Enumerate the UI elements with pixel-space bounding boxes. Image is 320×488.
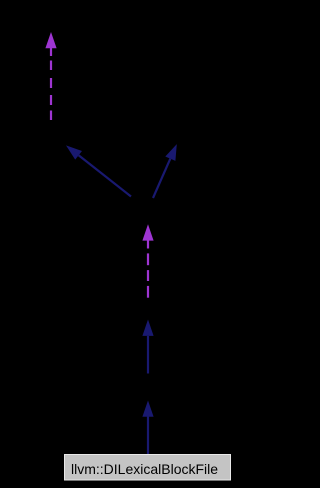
- wire A dash 4: [50, 95, 52, 105]
- node llvm::DILexicalBlockFile (main node box): [65, 455, 231, 481]
- wire D dash 3: [147, 270, 149, 281]
- arrowhead F: [142, 401, 153, 417]
- edge D: dashed usage arrow (middle), pointing up: [147, 240, 149, 298]
- svg-text:llvm::DILexicalBlockFile: llvm::DILexicalBlockFile: [71, 461, 218, 477]
- wire A dash 1: [50, 48, 52, 56]
- edge A: dashed usage arrow (top-left), pointing up: [50, 48, 52, 120]
- edge B: solid inheritance arrow to upper-left node: [79, 155, 131, 196]
- wire A dash 5: [50, 111, 52, 121]
- wire D dash 2: [147, 253, 149, 265]
- arrowhead E: [142, 320, 153, 336]
- edge F: solid inheritance arrow from main node: [147, 416, 149, 454]
- arrowhead C: [165, 144, 177, 161]
- wire D dash 1: [147, 240, 149, 249]
- arrowhead D: [142, 224, 153, 240]
- wire A dash 3: [50, 78, 52, 88]
- arrowhead B: [66, 145, 82, 159]
- edge E: solid inheritance arrow (lower middle): [147, 336, 149, 374]
- edge C: solid inheritance arrow to upper-right node: [153, 159, 170, 198]
- wire A dash 2: [50, 61, 52, 71]
- wire D dash 4: [147, 286, 149, 298]
- arrowhead A: [45, 32, 56, 48]
